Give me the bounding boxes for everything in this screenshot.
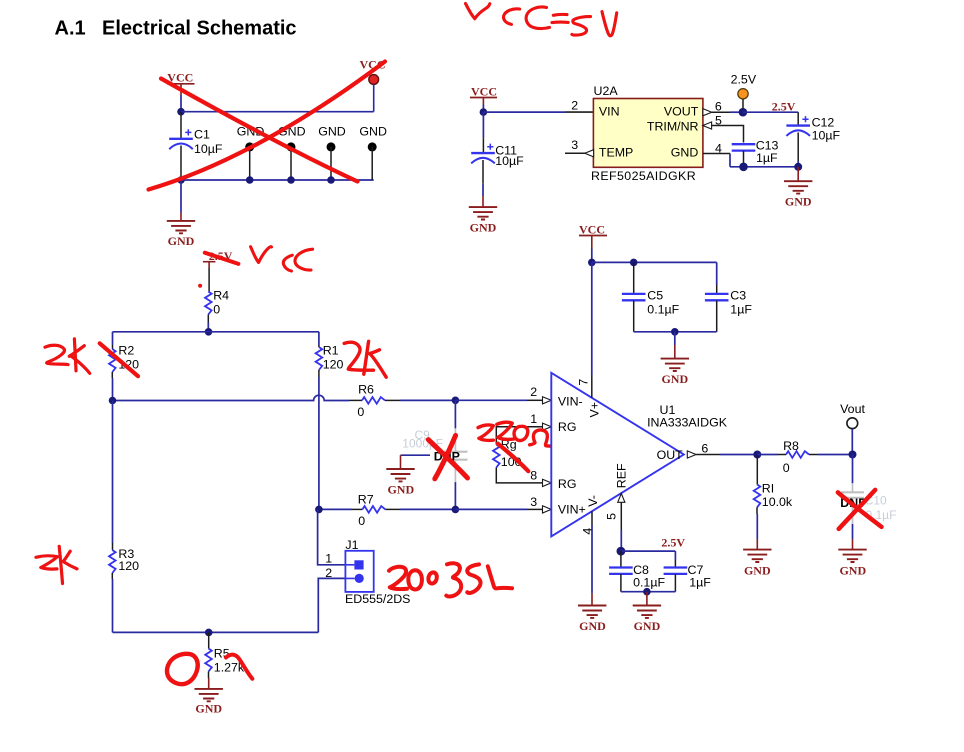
resistor R5 [205,632,245,689]
test point GND 3 [318,125,346,180]
resistor R4 [205,288,229,331]
svg-text:8: 8 [530,468,537,482]
svg-text:6: 6 [715,99,722,113]
svg-text:R1: R1 [323,344,339,358]
svg-text:2.5V: 2.5V [661,536,685,550]
wire [592,261,717,263]
annotation red dot [198,284,202,288]
svg-text:2: 2 [530,385,537,399]
svg-text:REF5025AIDGKR: REF5025AIDGKR [591,169,696,183]
capacitor C1 [169,112,223,180]
svg-text:1: 1 [325,551,332,565]
svg-text:2.5V: 2.5V [731,73,757,87]
svg-text:0: 0 [357,405,364,419]
svg-text:C3: C3 [730,289,746,303]
junction [452,506,460,514]
annotation: red X over bypass circuit [161,79,358,182]
capacitor C7 [664,551,712,592]
wire bottom rail [113,631,319,633]
resistor R1 [316,332,344,510]
svg-text:GND: GND [168,234,195,248]
svg-text:GND: GND [839,563,866,577]
svg-text:A.1: A.1 [55,17,86,39]
output terminal Vout [840,402,865,454]
junction [109,397,117,405]
svg-text:U2A: U2A [594,84,619,98]
resistor R6 [349,383,455,419]
svg-text:6: 6 [701,441,708,455]
resistor R8 [757,439,852,475]
svg-text:R4: R4 [213,288,229,302]
ground [661,332,689,386]
svg-text:GND: GND [318,125,346,139]
annotation red X over C10 [838,490,882,529]
svg-text:3: 3 [571,138,578,152]
svg-text:RI: RI [762,482,774,496]
svg-text:RG: RG [558,477,577,491]
svg-text:GND: GND [359,125,387,139]
power flag 2.5V [203,249,233,292]
test point GND 2 [278,125,306,180]
pin 4 V- [580,511,594,605]
wire to VIN+ [455,508,527,510]
junction [177,108,185,116]
svg-text:GND: GND [195,702,222,716]
capacitor C12 [786,112,840,167]
wire pin 2 [483,111,565,113]
capacitor C8 [609,551,665,592]
wire [730,166,798,168]
junction [205,328,213,336]
junction [739,108,748,117]
resistor R2 [109,332,139,401]
svg-text:C1: C1 [194,128,210,142]
pin 5 REF [604,494,625,552]
svg-text:V-: V- [586,495,600,507]
ground [578,606,606,633]
svg-text:VIN+: VIN+ [558,503,586,517]
svg-text:J1: J1 [345,538,358,552]
resistor R7 and lower rail [319,493,456,528]
annotation red circle at R5 [167,654,198,684]
annotation slash over R2 [100,343,138,376]
svg-text:GND: GND [744,563,771,577]
svg-text:R7: R7 [358,493,374,507]
svg-text:GND: GND [387,482,414,496]
svg-text:0: 0 [358,514,365,528]
pin 6 OUT [687,441,757,458]
svg-text:RG: RG [558,420,577,434]
power flag VCC [470,85,497,113]
wire [180,180,182,213]
ground [469,196,497,234]
svg-text:GND: GND [785,195,812,209]
wire 2.5V ref net [621,550,676,552]
svg-text:R6: R6 [358,383,374,397]
junction [205,629,213,637]
svg-text:VOUT: VOUT [664,105,699,119]
svg-text:VIN-: VIN- [558,395,583,409]
svg-text:GND: GND [634,619,661,633]
power flag VCC [167,71,195,112]
capacitor C13 [732,139,779,167]
ground [784,167,812,209]
svg-text:1µF: 1µF [730,302,752,316]
svg-text:3: 3 [530,495,537,509]
svg-text:VCC: VCC [579,223,605,237]
junction [588,259,596,267]
pin 7 V+ [577,262,592,398]
ground [838,550,866,578]
svg-text:C12: C12 [812,115,835,129]
svg-text:0.1µF: 0.1µF [647,302,679,316]
svg-text:TRIM/NR: TRIM/NR [647,119,699,133]
svg-text:2: 2 [325,566,332,580]
svg-text:0.1µF: 0.1µF [633,575,665,589]
IC U2A REF5025AIDGKR [591,84,703,183]
ground [195,689,223,716]
svg-text:0: 0 [783,461,790,475]
op-amp U1 INA333AIDGK [551,373,727,537]
svg-text:5: 5 [604,513,618,520]
junction [794,163,802,171]
capacitor C10 DNP [841,455,896,550]
annotation 2k at R3 [36,546,77,583]
wire C9 to ground [401,454,431,456]
wire to VIN- [455,399,527,401]
svg-text:GND: GND [671,146,699,160]
svg-text:120: 120 [118,559,139,573]
pin arrow 2 [543,397,552,404]
ground [167,213,195,249]
pin arrow 3 [543,506,552,513]
annotation handwritten 220ohm [478,422,556,446]
wire [181,179,374,181]
wire [181,111,374,113]
junction [739,163,748,172]
svg-text:10.0k: 10.0k [762,495,793,509]
svg-text:2: 2 [571,99,578,113]
svg-text:VIN: VIN [599,105,620,119]
svg-text:7: 7 [577,379,591,386]
svg-text:Electrical Schematic: Electrical Schematic [102,17,297,39]
svg-text:10µF: 10µF [812,128,841,142]
junction [327,176,335,184]
svg-text:R8: R8 [783,439,799,453]
svg-text:C5: C5 [647,289,663,303]
svg-text:TEMP: TEMP [599,146,633,160]
svg-text:10µF: 10µF [495,154,524,168]
capacitor C5 [622,262,680,331]
capacitor C3 [705,262,752,331]
annotation strike through 2.5V [205,253,239,264]
pin arrow 1 [543,423,552,430]
test point GND 4 [359,125,387,180]
junction [177,176,185,184]
junction [480,108,488,116]
wire 2.5V [743,111,798,113]
svg-text:5: 5 [715,113,722,127]
annotation handwritten VCC=5V [466,4,617,36]
junction [287,176,295,184]
power test point VCC [360,57,386,111]
svg-text:4: 4 [580,528,594,535]
svg-text:INA333AIDGK: INA333AIDGK [647,416,728,430]
wire top rail [113,331,319,333]
pin 4 GND [703,141,730,166]
junction [246,176,254,184]
svg-text:GND: GND [661,372,688,386]
annotation 2k at R2 [45,339,90,374]
svg-text:R2: R2 [118,344,134,358]
resistor RI [754,455,793,550]
junction [753,451,761,459]
annotation handwritten 200ohm [389,563,512,596]
test point 2.5V [731,73,757,109]
svg-text:VCC: VCC [471,85,497,99]
svg-text:GND: GND [470,220,497,234]
annotation stroke through R5 value [226,655,252,679]
annotation red X over C9 [428,435,467,478]
annotation scribble 2k over R1 [344,341,386,377]
capacitor C9 DNP [402,400,467,509]
pin 3 TEMP [565,138,594,157]
wire [621,591,676,593]
svg-text:0: 0 [213,302,220,316]
resistor R3 [109,401,139,633]
svg-text:4: 4 [715,141,722,155]
annotation slash over Rg [498,444,529,472]
svg-text:1µF: 1µF [756,151,778,165]
pin arrow 8 [543,479,552,486]
svg-text:V+: V+ [588,402,602,418]
svg-text:1: 1 [530,412,537,426]
svg-text:2.5V: 2.5V [772,99,796,113]
svg-text:GND: GND [579,619,606,633]
svg-text:1µF: 1µF [689,575,711,589]
wire middle rail with hop [113,395,350,400]
svg-text:OUT: OUT [657,448,684,462]
svg-text:Vout: Vout [840,402,865,416]
svg-text:REF: REF [615,463,629,488]
junction [315,506,323,514]
annotation handwritten VCC [251,247,313,271]
pin 6 VOUT [703,99,743,115]
junction [452,397,460,405]
connector J1 [318,509,411,632]
svg-text:10µF: 10µF [194,142,223,156]
junction [849,451,857,459]
ground [386,455,414,496]
test point GND 1 [237,125,265,180]
resistor Rg with pins 1 and 8 [493,427,543,483]
junction [630,259,638,267]
capacitor C11 [471,112,524,196]
junction [671,328,679,336]
junction [617,547,626,556]
power flag VCC [579,223,607,263]
ground [743,550,771,578]
wire [634,331,717,333]
junction [643,588,651,596]
ground [633,592,661,633]
svg-text:ED555/2DS: ED555/2DS [345,592,410,606]
pin 5 TRIM/NR [703,113,744,142]
svg-text:120: 120 [323,358,344,372]
